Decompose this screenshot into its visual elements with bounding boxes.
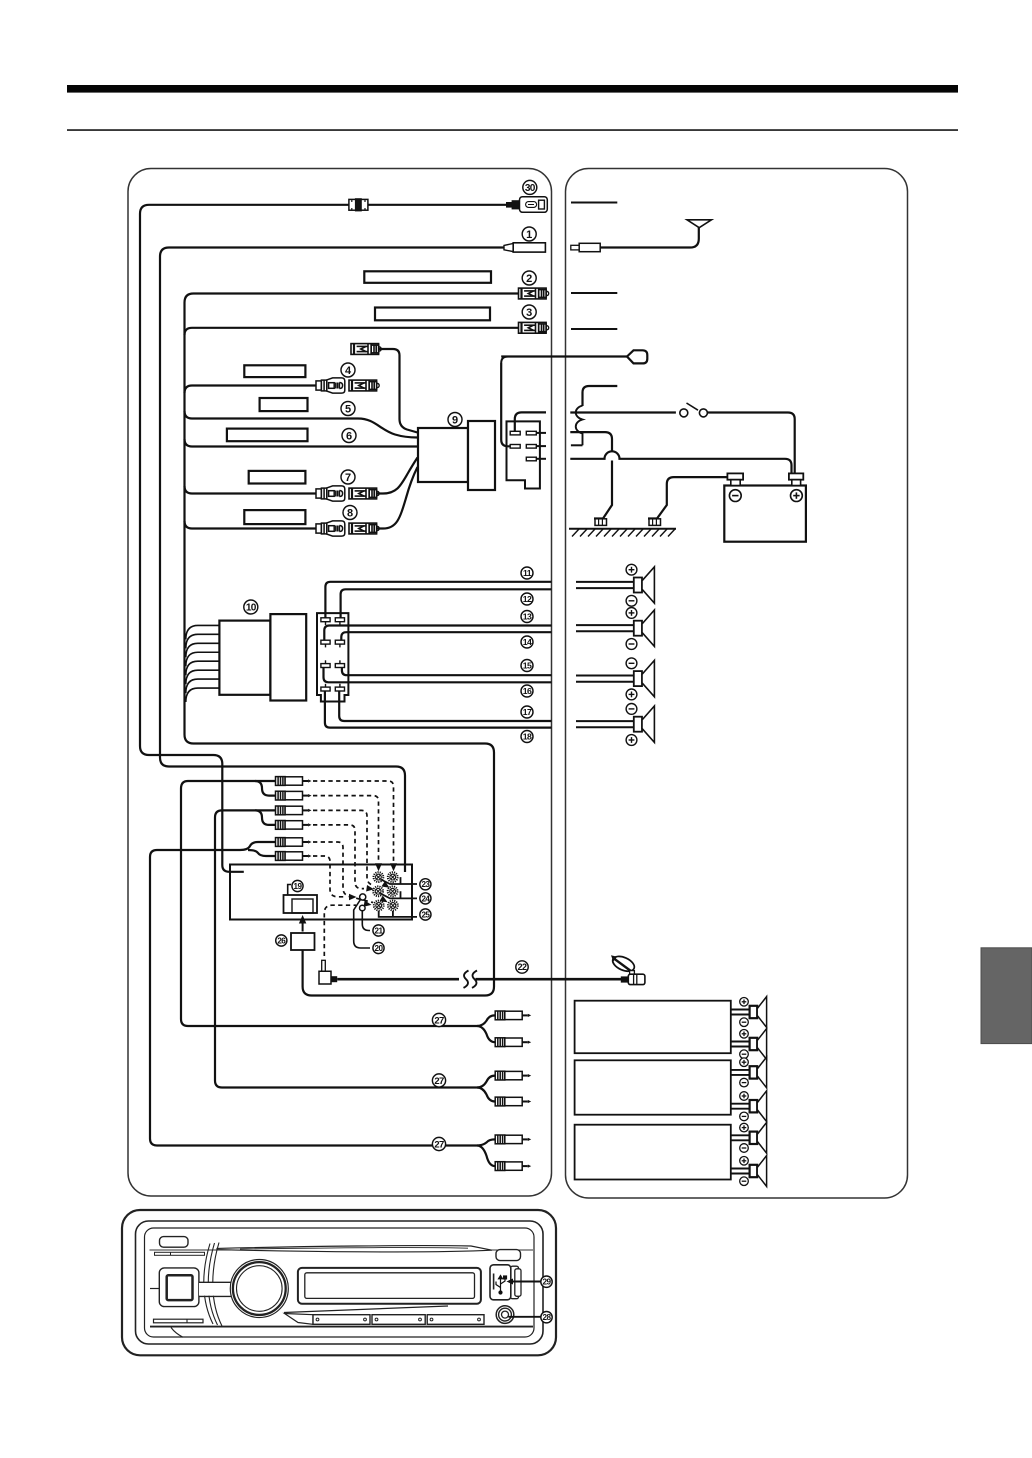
power connector 9 [418, 428, 468, 482]
RCA pair 1 (wires to plugs) [181, 781, 276, 789]
leader to callout 28 [509, 1316, 542, 1318]
svg-text:19: 19 [294, 882, 303, 891]
dashed lead from plug pair3 bottom [313, 856, 346, 897]
wire 2 [185, 294, 519, 996]
wire 14 speaker lead [341, 632, 551, 640]
svg-text:14: 14 [523, 637, 532, 647]
wire 16 speaker lead [324, 668, 552, 683]
vehicle-side harness connector [507, 421, 540, 488]
cable 27 split [477, 1015, 495, 1026]
svg-text:27: 27 [434, 1015, 444, 1026]
dashed lead from mini plug up to jack [324, 905, 356, 956]
CD slot [217, 1246, 492, 1252]
wire 3 [185, 328, 519, 335]
svg-text:5: 5 [345, 403, 351, 415]
callout 26 [276, 935, 287, 946]
battery wire with hop over ground wire [570, 451, 791, 473]
wire 15 speaker lead [342, 668, 552, 676]
wire loom squiggle [576, 406, 583, 446]
callout 27 [432, 1074, 445, 1087]
callout 4 [341, 363, 355, 377]
leader to callout 20 [354, 900, 370, 949]
svg-text:25: 25 [421, 910, 430, 919]
amplifier box A [575, 1001, 731, 1053]
AUX jack 28 [496, 1306, 514, 1324]
label box for item 7 [249, 471, 306, 484]
callout 7 [341, 470, 355, 484]
wire 17 speaker lead [339, 691, 551, 721]
amp speaker [731, 1009, 750, 1011]
callout 12 [521, 593, 533, 605]
callout 11 [521, 567, 533, 579]
amp speaker [731, 1134, 750, 1136]
pod connector [627, 350, 647, 363]
wire from switched lead into pin (left column row 1) [515, 412, 546, 431]
svg-text:12: 12 [523, 594, 532, 604]
svg-text:22: 22 [518, 962, 527, 972]
callout 29 [541, 1276, 552, 1287]
speaker [576, 720, 634, 722]
mini plug of microphone cable [319, 960, 337, 984]
RCA jacks cluster [374, 872, 384, 882]
wire 13 speaker lead [324, 626, 551, 641]
chassis ground line with hatching [569, 528, 676, 530]
dashed lead from plug pair3 top [313, 842, 373, 903]
left square button [150, 1288, 159, 1290]
svg-text:27: 27 [434, 1076, 444, 1087]
wire 5 [185, 411, 418, 438]
callout 19 leader [288, 885, 291, 896]
ground lug 2 wire to battery minus [648, 477, 731, 518]
callout 5 [341, 402, 355, 416]
battery minus mark [729, 490, 741, 502]
svg-text:28: 28 [543, 1313, 552, 1322]
callout 22 [516, 961, 528, 973]
leader to callout 29 [509, 1281, 541, 1283]
battery [724, 486, 806, 542]
callout 2 [522, 271, 536, 285]
ISO connector block [317, 613, 348, 701]
callout 27 [432, 1013, 445, 1026]
bottom button bar [285, 1314, 314, 1325]
svg-text:23: 23 [421, 880, 430, 889]
svg-text:18: 18 [523, 732, 532, 742]
fused power lead with pod [501, 357, 627, 364]
pin stubs to vehicle wiring [536, 432, 546, 434]
svg-text:4: 4 [345, 365, 352, 377]
wire 12 speaker lead [341, 589, 552, 618]
harness pins [510, 431, 520, 435]
ignition lead stub [583, 386, 618, 406]
dashed lead from plug pair1 top to rear jack [313, 781, 394, 861]
amp speaker [731, 1168, 750, 1170]
svg-text:30: 30 [525, 183, 536, 194]
callout 25 [420, 909, 431, 920]
connector pair of wire 7 [316, 486, 345, 501]
callout 21 [373, 925, 384, 936]
connector, end of wire 3 [519, 322, 549, 333]
callout 23 [420, 879, 431, 890]
leader to callout 21 [362, 911, 370, 931]
wire 4 [185, 386, 317, 394]
callout 24 leader [381, 891, 418, 898]
rotary knob [230, 1260, 288, 1318]
svg-text:17: 17 [523, 707, 532, 717]
callout 24 [420, 893, 431, 904]
cable 27 split [477, 1076, 495, 1088]
speaker [576, 581, 634, 583]
USB symbol [496, 1276, 507, 1295]
connector 10 [219, 621, 270, 695]
dashed lead from plug pair2 bottom [313, 825, 364, 889]
amplifier box B [575, 1060, 731, 1114]
battery plus mark [791, 490, 803, 502]
wire 11 speaker lead [325, 582, 551, 618]
faceplate bottom edge [150, 1326, 533, 1328]
speaker [576, 675, 634, 677]
svg-text:16: 16 [523, 686, 532, 696]
speaker [576, 624, 634, 626]
head unit outer bezel [122, 1210, 556, 1355]
svg-text:1: 1 [526, 229, 532, 241]
svg-text:7: 7 [345, 472, 351, 484]
callout 13 [521, 611, 533, 623]
page edge section tab [981, 948, 1032, 1044]
ISO block pins [321, 618, 330, 622]
wire 1 antenna conversion cable [160, 248, 504, 873]
svg-text:6: 6 [346, 430, 352, 442]
right panel frame [566, 169, 908, 1199]
antenna plug, end of wire 1 [504, 243, 545, 252]
car antenna symbol [579, 228, 699, 248]
svg-text:2: 2 [526, 273, 532, 285]
callout 10 [244, 600, 258, 614]
switched power wire with SPST switch [570, 411, 676, 413]
connector pair of wire 8 [316, 521, 345, 536]
display window [298, 1268, 481, 1304]
wire 6 [185, 439, 418, 447]
svg-text:26: 26 [277, 936, 286, 945]
callout 27 [432, 1137, 445, 1150]
RCA pair 2 [215, 810, 276, 817]
svg-text:21: 21 [375, 926, 384, 935]
svg-text:13: 13 [523, 612, 532, 622]
svg-text:27: 27 [434, 1139, 444, 1150]
wire 8 [185, 521, 317, 529]
diagonal accent below knob [284, 1306, 448, 1313]
small jack 21 [360, 905, 366, 911]
connector, end of wire 2 [519, 288, 549, 299]
faceplate top-right button [496, 1250, 521, 1261]
svg-text:11: 11 [523, 568, 532, 578]
knob bridge [199, 1283, 237, 1296]
label stub lines in right panel [571, 202, 617, 204]
callout 6 [342, 429, 356, 443]
label box for item 4 [244, 365, 305, 377]
callout 19 [292, 880, 303, 891]
rear chassis box [230, 865, 412, 920]
amp speaker [731, 1103, 750, 1105]
USB door 29 [511, 1266, 519, 1299]
connector inline on wire 30 [349, 198, 368, 211]
svg-text:3: 3 [526, 307, 532, 319]
RCA plugs pair 1 [276, 777, 312, 786]
microphone with clip [610, 953, 644, 984]
label box for item 5 [260, 398, 308, 411]
box 26 [291, 933, 315, 950]
wire 18 speaker lead [325, 691, 552, 728]
RCA pair 3 [150, 842, 276, 857]
callout 18 [521, 731, 533, 743]
amp speaker [731, 1069, 750, 1071]
callout 8 [343, 506, 357, 520]
svg-text:9: 9 [452, 414, 458, 426]
callout 25 leader [379, 911, 417, 917]
microphone cable wire 22 [337, 978, 459, 981]
faceplate top-left button [160, 1237, 189, 1248]
callout 1 [522, 227, 536, 241]
callout 28 [541, 1312, 552, 1323]
svg-text:29: 29 [543, 1278, 552, 1287]
label box for item 3 [375, 308, 490, 321]
USB plug and receptacle, end of wire 30 [506, 197, 547, 213]
connector pair of wire 4 [316, 378, 345, 393]
label box for item 6 [227, 429, 308, 442]
svg-text:8: 8 [347, 507, 353, 519]
wire 30 USB extension cable [140, 205, 506, 872]
header thick rule [67, 85, 958, 93]
left panel frame [128, 169, 552, 1197]
callout 16 [521, 685, 533, 697]
amp speaker [731, 1041, 750, 1043]
dashed lead from plug pair2 top [313, 810, 373, 885]
callout 20 [373, 942, 384, 953]
dashed lead from plug pair1 bottom [313, 796, 379, 861]
svg-text:24: 24 [421, 894, 430, 903]
mating connector above wire 4 going to box 9 [351, 344, 381, 355]
callout 23 leader [381, 877, 417, 884]
label box for item 2 [364, 271, 491, 283]
antenna receptacle [571, 243, 600, 251]
label box for item 8 [244, 510, 305, 524]
face seams [204, 1244, 213, 1325]
connector 19 [284, 895, 318, 913]
wire 7 [185, 486, 317, 494]
svg-text:10: 10 [246, 603, 257, 614]
svg-text:15: 15 [523, 661, 532, 671]
small jack 20 [360, 894, 366, 900]
callout 3 [522, 305, 536, 319]
callout 9 [448, 413, 462, 427]
callout 17 [521, 706, 533, 718]
cable break marks [464, 971, 469, 988]
ground wire with lug 1 [570, 432, 612, 452]
callout 14 [521, 636, 533, 648]
svg-text:20: 20 [375, 944, 384, 953]
wire from fuse lead into pin (left column row 2) [501, 363, 510, 446]
header thin rule [67, 129, 958, 131]
bottom-left accent bar [154, 1319, 204, 1323]
cable 27 split [477, 1139, 495, 1145]
arrow from 26 to 19 [302, 920, 304, 932]
callout 15 [521, 660, 533, 672]
wire fan into connector 10 [186, 625, 220, 639]
amplifier box C [575, 1125, 731, 1180]
callout 30 [523, 180, 537, 194]
